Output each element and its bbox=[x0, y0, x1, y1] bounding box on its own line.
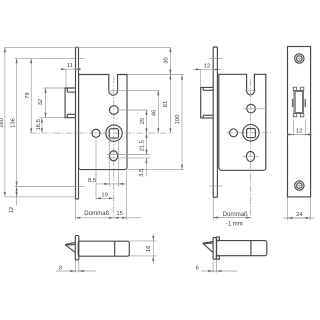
latch body tick detail1 bbox=[114, 241, 116, 256]
dim 16.5 line bbox=[41, 118, 43, 133]
svg-text:-1 mm: -1 mm bbox=[226, 222, 243, 228]
upper hole tick view2 bbox=[244, 108, 267, 110]
screw tick top view2 bbox=[209, 57, 223, 59]
horizontal centerline view2 bbox=[226, 132, 271, 134]
svg-text:Dornmaß: Dornmaß bbox=[223, 212, 248, 218]
case bottom extension line bbox=[127, 169, 184, 171]
svg-text:24: 24 bbox=[296, 212, 303, 218]
svg-text:12: 12 bbox=[9, 207, 15, 213]
upper hole view2 bbox=[247, 104, 256, 113]
dim 12 ext lines view3 bbox=[292, 119, 294, 136]
latch window outer bbox=[294, 90, 304, 113]
faceplate bar detail2 bbox=[213, 238, 216, 260]
dim 3 line bbox=[56, 270, 96, 272]
screw tick bottom view2 bbox=[209, 185, 223, 187]
svg-text:Dornmaß: Dornmaß bbox=[84, 211, 109, 217]
faceplate view1 (side) bbox=[76, 47, 79, 199]
dim Dornmass line view1 bbox=[75, 217, 113, 219]
latch window bottom tabs bbox=[293, 114, 296, 117]
screw centreline tick top bbox=[15, 57, 85, 59]
dim 30/61 chain line bbox=[169, 47, 171, 133]
dim 6 ext lines bbox=[212, 260, 214, 273]
latch body tick detail2 bbox=[250, 241, 252, 256]
svg-text:30: 30 bbox=[163, 57, 169, 63]
latch side clips bbox=[292, 99, 293, 107]
dim 3 ext lines bbox=[74, 261, 76, 273]
latch body detail2 bbox=[217, 241, 267, 256]
dim 12 line bottom-left bbox=[16, 187, 18, 197]
svg-text:61: 61 bbox=[163, 101, 169, 107]
small hole view2 bbox=[230, 129, 238, 137]
faceplate bar detail1 bbox=[75, 235, 79, 260]
svg-text:11: 11 bbox=[67, 63, 73, 69]
dim 12 line view3 bbox=[287, 134, 312, 136]
slot tick view2 bbox=[245, 89, 256, 91]
faceplate bottom ext line bbox=[74, 199, 76, 220]
svg-text:16: 16 bbox=[146, 246, 152, 252]
oval hole view1 bbox=[110, 151, 118, 161]
dim 32 line bbox=[45, 88, 47, 118]
oval hole view2 bbox=[246, 151, 254, 161]
svg-text:79: 79 bbox=[25, 92, 31, 98]
dim 19 line bbox=[96, 197, 114, 199]
faceplate bottom ext view2 bbox=[212, 198, 214, 220]
case right ext line bbox=[126, 172, 128, 221]
oval tick view2 bbox=[243, 155, 258, 157]
dim 11 line bbox=[62, 68, 81, 70]
upper hole extension line bbox=[119, 109, 148, 111]
dim 12 line view2 bbox=[193, 68, 222, 70]
ext line bump bottom bbox=[39, 117, 65, 119]
svg-text:12: 12 bbox=[204, 64, 210, 70]
svg-text:160: 160 bbox=[0, 118, 5, 128]
svg-text:16.5: 16.5 bbox=[36, 119, 42, 130]
svg-text:8.5: 8.5 bbox=[88, 178, 96, 184]
dim 79 line bbox=[30, 58, 32, 133]
dim Dornmass line view2 bbox=[213, 217, 251, 219]
follower nut view1 bbox=[106, 125, 122, 141]
svg-text:19: 19 bbox=[101, 192, 107, 198]
dim 160 line bbox=[4, 47, 6, 197]
dim 24 line bbox=[283, 217, 314, 219]
latch head detail2 bbox=[203, 241, 213, 243]
latch window top tabs bbox=[293, 87, 296, 90]
bottom extension line faceplate end bbox=[5, 196, 76, 198]
svg-text:46: 46 bbox=[151, 110, 157, 116]
small hole view1 bbox=[92, 129, 100, 137]
latch head detail1 bbox=[65, 242, 75, 244]
notch extension line bbox=[111, 89, 160, 91]
dim 46 line bbox=[157, 90, 159, 133]
dim 21.5 line bbox=[146, 133, 148, 154]
svg-text:32: 32 bbox=[38, 99, 44, 105]
screw hole bottom bbox=[295, 181, 304, 190]
dim 8.5 line bbox=[97, 183, 127, 185]
dim 6 line bbox=[201, 270, 238, 272]
vertical centerline view1 bbox=[113, 77, 115, 220]
vertical centerline view2 bbox=[250, 79, 252, 219]
horizontal centerline view1 bbox=[30, 132, 173, 134]
latch bolt bump view1 bbox=[65, 88, 75, 118]
dim 24 ext lines bbox=[287, 197, 289, 220]
screw hole top bbox=[295, 54, 304, 63]
latch bolt bump view2 bbox=[201, 87, 214, 118]
svg-text:136: 136 bbox=[10, 118, 16, 128]
dim 100 line bbox=[181, 75, 183, 170]
lock case view2 outline bbox=[219, 74, 266, 170]
svg-text:6: 6 bbox=[196, 265, 199, 271]
dim 11 ext line bbox=[65, 70, 67, 88]
dim 3.5 arrows bbox=[146, 158, 148, 163]
follower nut view2 bbox=[243, 125, 259, 141]
latch body detail1 bbox=[78, 241, 129, 256]
svg-text:15: 15 bbox=[116, 211, 122, 217]
case top extension line bbox=[127, 74, 184, 76]
latch face inner bbox=[295, 92, 302, 113]
faceplate bar tabs detail2 bbox=[216, 237, 219, 240]
ext line bump top bbox=[44, 87, 65, 89]
svg-text:3: 3 bbox=[59, 265, 62, 271]
dim 12 ext view2 bbox=[200, 70, 202, 87]
oval tick line 1 bbox=[107, 154, 150, 156]
dim 25 line bbox=[146, 110, 148, 133]
square hole ext lines bbox=[108, 140, 110, 187]
faceplate view2 (side) bbox=[213, 47, 217, 197]
upper hole view1 bbox=[110, 106, 119, 115]
svg-text:3.5: 3.5 bbox=[139, 169, 145, 177]
dim 136 line bbox=[16, 58, 18, 186]
dim 16 ext lines bbox=[130, 240, 157, 242]
svg-text:21.5: 21.5 bbox=[139, 140, 145, 151]
small hole ext line bbox=[95, 138, 97, 199]
oval tick line 2 bbox=[107, 157, 150, 159]
dim 16 arrows bbox=[152, 234, 154, 241]
faceplate front view outline bbox=[288, 47, 311, 197]
screw centreline tick bottom bbox=[15, 186, 85, 188]
top extension line bbox=[5, 46, 171, 48]
svg-text:100: 100 bbox=[175, 115, 181, 125]
lock case view1 outline bbox=[79, 75, 127, 170]
svg-text:25: 25 bbox=[140, 118, 146, 124]
svg-text:12: 12 bbox=[296, 128, 302, 134]
